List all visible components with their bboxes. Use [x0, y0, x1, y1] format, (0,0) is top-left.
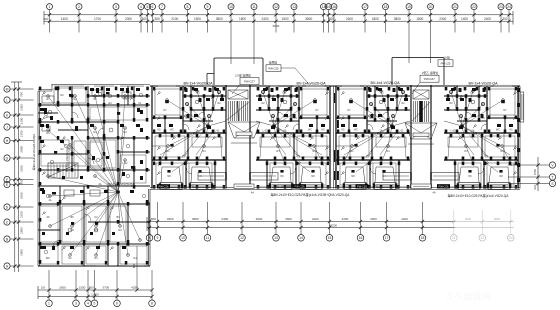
- svg-text:24: 24: [507, 5, 511, 9]
- svg-text:14: 14: [322, 5, 326, 9]
- apartment B-right bedroom1 inner face: [302, 89, 327, 115]
- apartment B-left room labels: [163, 109, 206, 187]
- svg-text:4A: 4A: [432, 190, 435, 194]
- bottom grid bubble axis-8: [146, 202, 153, 241]
- svg-text:T: T: [551, 175, 553, 179]
- bottom grid bubble axis-13: [273, 202, 280, 241]
- section divider pier bars: [334, 93, 339, 180]
- apartment B-left main cross walls: [152, 132, 226, 188]
- svg-text:8: 8: [151, 302, 153, 306]
- grid bubble axis-L: [4, 97, 34, 103]
- apartment C-right room labels: [464, 109, 507, 187]
- apartment C-left text row: [341, 92, 405, 133]
- bottom grid bubble axis-16: [357, 202, 364, 241]
- stair tower roof 1: [207, 58, 263, 85]
- left block window sills: [40, 85, 145, 265]
- apartment B-left bottom window sills: [152, 187, 226, 188]
- svg-text:500: 500: [44, 17, 49, 21]
- bottom grid bubble axis-8: [149, 270, 156, 307]
- apartment C-left top band walls: [336, 86, 410, 133]
- svg-text:2100: 2100: [171, 17, 178, 21]
- apartment B-right bottom bedroom inner faces: [270, 163, 326, 185]
- apartment C-left room labels: [347, 109, 390, 187]
- entry distribution box C-right: [437, 184, 450, 188]
- svg-text:1: 1: [48, 302, 50, 306]
- apartment B-left balcony rail: [152, 133, 166, 160]
- grid bubble axis-M: [4, 86, 34, 92]
- svg-text:BV-1x4-VG20-QA: BV-1x4-VG20-QA: [183, 81, 213, 85]
- svg-text:3800: 3800: [216, 17, 223, 21]
- svg-text:11: 11: [252, 5, 256, 9]
- svg-text:每BV-2x10+E10-G25-PA接(z1x4-VG20: 每BV-2x10+E10-G25-PA接(z1x4-VG20-QA: [448, 193, 510, 198]
- grid bubble axis-23: [498, 4, 504, 33]
- svg-text:3600: 3600: [167, 217, 174, 221]
- bay window B-left-b: [189, 183, 214, 190]
- grid bubble axis-9: [205, 4, 211, 33]
- svg-text:6: 6: [116, 302, 118, 306]
- apartment B-left switches: [157, 92, 215, 175]
- apartment C-left window sills: [342, 85, 360, 87]
- apartment C-left top band fixtures: [341, 88, 408, 129]
- svg-text:BV-1x4-VG20-QA: BV-1x4-VG20-QA: [65, 148, 69, 172]
- svg-text:PW-CZ7: PW-CZ7: [244, 80, 255, 84]
- grid bubble axis-17: [362, 4, 368, 33]
- apartment C-right bottom window sills: [444, 187, 518, 188]
- svg-text:3800: 3800: [192, 217, 199, 221]
- apartment B-left top band walls: [152, 86, 226, 133]
- apartment C-right top band fixtures: [446, 88, 513, 129]
- svg-text:1500: 1500: [281, 17, 288, 21]
- svg-text:接两处: 接两处: [269, 61, 278, 65]
- svg-text:10: 10: [181, 236, 185, 240]
- apartment C-left bottom window sills: [336, 187, 410, 188]
- apartment C-left lighting circuit: [350, 90, 410, 148]
- svg-text:1500: 1500: [194, 17, 201, 21]
- svg-text:1700: 1700: [94, 17, 101, 21]
- svg-text:9: 9: [207, 5, 209, 9]
- svg-text:20: 20: [429, 5, 433, 9]
- svg-text:1800: 1800: [372, 17, 379, 21]
- svg-text:1800: 1800: [416, 17, 423, 21]
- right grid dimension line: [533, 157, 538, 191]
- apartment C-right party wall: [517, 86, 518, 189]
- porch step stair1: [234, 184, 254, 194]
- left block extra fixtures: [42, 110, 146, 235]
- grid bubble axis-24: [506, 4, 512, 33]
- bay window C-right-a: [487, 183, 512, 190]
- svg-text:G: G: [6, 156, 9, 160]
- svg-text:WC: WC: [308, 129, 312, 132]
- grid bubble right axis-S: [508, 180, 556, 186]
- callout box PW-LZ5 top right: [438, 56, 453, 67]
- svg-text:15: 15: [328, 236, 332, 240]
- apartment B-right room labels: [276, 109, 319, 187]
- svg-text:17: 17: [363, 5, 367, 9]
- bottom grid bubble axis-14: [298, 202, 305, 241]
- bottom grid bubble axis-17: [383, 202, 390, 241]
- left block lighting circuit: [47, 95, 142, 257]
- svg-text:16: 16: [332, 5, 336, 9]
- grid bubble axis-E: [4, 181, 34, 187]
- apartment B-right main cross walls: [256, 132, 330, 188]
- apartment B-right bay diagonals: [271, 167, 321, 183]
- svg-text:2600: 2600: [59, 286, 66, 290]
- grid bubble axis-21: [452, 4, 458, 33]
- grid bubble axis-J: [4, 124, 34, 130]
- bay window C-left-b: [373, 183, 398, 190]
- svg-text:4A: 4A: [48, 199, 51, 202]
- callout box PW-CZ5 above stair1: [266, 61, 310, 86]
- apartment B-right lighting circuit: [256, 90, 316, 148]
- svg-text:WC: WC: [354, 129, 358, 132]
- left block room labels: [46, 94, 142, 260]
- apartment C-left main cross walls: [336, 132, 410, 188]
- svg-text:800: 800: [89, 286, 94, 290]
- svg-text:300: 300: [142, 17, 148, 21]
- grid bubble axis-C: [4, 219, 34, 225]
- svg-text:12: 12: [274, 5, 278, 9]
- apartment C-left top window sills: [364, 85, 396, 87]
- svg-text:300: 300: [502, 17, 508, 21]
- svg-text:750: 750: [19, 92, 23, 97]
- svg-text:5: 5: [94, 302, 96, 306]
- svg-text:13: 13: [292, 5, 296, 9]
- svg-text:BV-1x4-VG20-QA: BV-1x4-VG20-QA: [296, 81, 326, 85]
- svg-text:每BV-2x4+E10-G25-PA/QA: 每BV-2x4+E10-G25-PA/QA: [31, 134, 36, 170]
- left block outline: [38, 84, 150, 266]
- left block room inner faces: [40, 88, 147, 264]
- apartment B-left top band fixtures: [157, 88, 224, 129]
- porch floor band stair2 left: [383, 173, 411, 181]
- apartment B-left text row: [157, 92, 221, 133]
- svg-text:3: 3: [115, 5, 117, 9]
- svg-text:L-02: L-02: [263, 130, 268, 133]
- bottom grid bubble axis-4: [85, 270, 92, 307]
- bottom-middle dimension texts: [151, 217, 501, 227]
- svg-text:PW-CZ6: PW-CZ6: [439, 185, 449, 189]
- staircase S1: [225, 86, 250, 189]
- bottom grid bubble axis-10: [180, 202, 187, 241]
- svg-text:2A: 2A: [380, 130, 383, 133]
- svg-text:6: 6: [152, 5, 154, 9]
- left block small room fixtures: [40, 88, 143, 254]
- grid bubble axis-K: [4, 112, 34, 118]
- apartment C-left living room inner face: [339, 136, 406, 157]
- svg-text:2: 2: [78, 5, 80, 9]
- svg-text:L-02: L-02: [451, 130, 456, 133]
- svg-text:100: 100: [41, 286, 46, 290]
- grid bubble axis-5: [145, 4, 151, 33]
- bottom grid bubble axis-1: [46, 270, 53, 307]
- svg-text:4200: 4200: [342, 217, 349, 221]
- apartment B-left bottom bedroom inner faces: [156, 163, 212, 185]
- svg-text:WC: WC: [46, 116, 50, 119]
- grid bubble axis-11: [251, 4, 257, 64]
- apartment B-left doors: [182, 112, 204, 174]
- grid bubble axis-14: [321, 4, 327, 33]
- apartment B-right text row: [261, 92, 325, 133]
- svg-text:L-02: L-02: [215, 130, 220, 133]
- grid bubble axis-B: [4, 236, 34, 242]
- svg-text:5: 5: [147, 5, 149, 9]
- left block interior walls: [38, 86, 150, 266]
- left grid dimension lines: [11, 82, 22, 272]
- svg-text:久久建筑网: 久久建筑网: [445, 291, 490, 302]
- apartment C-right living room inner face: [448, 136, 515, 157]
- svg-text:2100: 2100: [19, 130, 23, 137]
- svg-text:PW-CZ5: PW-CZ5: [268, 67, 279, 71]
- svg-text:21: 21: [452, 236, 456, 240]
- svg-text:WC: WC: [170, 129, 174, 132]
- grid bubble axis-3: [113, 4, 119, 33]
- svg-text:18: 18: [384, 5, 388, 9]
- svg-text:4A: 4A: [251, 190, 254, 194]
- callout box PW-CZ7 near stair2: [412, 71, 439, 94]
- grid bubble axis-15: [326, 4, 332, 33]
- grid bubble axis-4: [138, 4, 144, 33]
- grid bubble axis-16: [331, 4, 337, 33]
- svg-text:2A: 2A: [98, 183, 101, 186]
- left block extra walls: [38, 86, 150, 231]
- apartment C-right living room wires: [448, 126, 512, 172]
- bottom-left dimension lines: [38, 286, 152, 299]
- entry porch E2: [405, 123, 437, 144]
- svg-text:2100: 2100: [19, 211, 23, 218]
- svg-text:15: 15: [327, 5, 331, 9]
- apartment C-right main cross walls: [444, 132, 518, 188]
- svg-text:4: 4: [87, 302, 89, 306]
- bottom-middle dimension lines: [147, 217, 514, 231]
- apartment C-right lighting circuit: [444, 90, 504, 148]
- apartment B-right top band walls: [256, 86, 330, 133]
- svg-text:3700: 3700: [102, 286, 109, 290]
- right edge side bay: [520, 92, 524, 122]
- svg-text:2400: 2400: [484, 17, 491, 21]
- grid bubble axis-G: [4, 155, 34, 161]
- apartment C-left balcony rail: [336, 133, 350, 160]
- svg-text:3300: 3300: [19, 165, 23, 172]
- svg-text:21: 21: [453, 5, 457, 9]
- apartment C-left switches: [341, 92, 399, 175]
- svg-text:24: 24: [509, 236, 513, 240]
- svg-text:14: 14: [299, 236, 303, 240]
- bottom grid bubble axis-18: [419, 202, 426, 241]
- apartment C-right bedroom1 inner face: [490, 89, 515, 115]
- apartment C-left party wall: [335, 86, 336, 189]
- apartment C-right text row: [449, 92, 513, 133]
- grid bubble axis-H: [4, 137, 34, 143]
- bottom grid bubble gray axis-24: [508, 210, 515, 241]
- grid bubble axis-8: [185, 4, 191, 33]
- apartment B-left bedroom1 inner face: [155, 89, 180, 115]
- svg-text:BV-1x4-VG20-QA: BV-1x4-VG20-QA: [468, 82, 498, 86]
- apartment B-right bottom window sills: [256, 187, 330, 188]
- apartment B-right doors: [278, 112, 300, 174]
- svg-text:17: 17: [385, 236, 389, 240]
- svg-text:22: 22: [472, 5, 476, 9]
- svg-text:2400: 2400: [439, 17, 446, 21]
- bottom grid bubble axis-6: [114, 270, 121, 307]
- svg-text:18: 18: [421, 236, 425, 240]
- svg-text:3: 3: [75, 302, 77, 306]
- left block middle inner faces: [41, 140, 146, 183]
- apartment C-right bottom bedroom inner faces: [458, 163, 514, 185]
- svg-text:11: 11: [206, 236, 210, 240]
- svg-text:M: M: [6, 87, 9, 91]
- left grid dimension texts: [19, 92, 23, 256]
- grid bubble axis-F: [4, 176, 34, 182]
- svg-text:1: 1: [49, 5, 51, 9]
- bottom grid bubble axis-12: [239, 202, 246, 241]
- svg-text:1500: 1500: [79, 286, 86, 290]
- left block wall piers: [39, 87, 149, 265]
- porch floor band stair2 right: [431, 173, 459, 181]
- svg-text:4200: 4200: [401, 217, 408, 221]
- porch floor band stair1 left: [198, 173, 226, 181]
- grid bubble axis-D: [4, 204, 34, 210]
- bay window B-right-a: [299, 183, 324, 190]
- bay window C-left-a: [343, 183, 368, 190]
- grid bubble axis-6: [150, 4, 156, 33]
- svg-text:1500: 1500: [533, 168, 537, 175]
- bottom grid bubble axis-11: [204, 202, 211, 241]
- entry distribution box B-left: [157, 184, 170, 188]
- bay window B-right-b: [269, 183, 294, 190]
- left block fixtures: [42, 90, 140, 249]
- svg-text:2850: 2850: [19, 146, 23, 153]
- stair tower roof 2: [392, 58, 444, 86]
- bottom grid bubble axis-5: [91, 270, 98, 307]
- svg-text:1400: 1400: [61, 17, 68, 21]
- svg-text:23: 23: [499, 5, 503, 9]
- left block doors: [53, 112, 104, 247]
- apartment B-left living room wires: [158, 126, 222, 172]
- svg-text:2400: 2400: [346, 17, 353, 21]
- svg-text:3000: 3000: [256, 217, 263, 221]
- svg-text:J: J: [6, 125, 8, 129]
- apartment B-right top band fixtures: [258, 88, 325, 129]
- svg-text:2300: 2300: [19, 104, 23, 111]
- grid bubble axis-20: [428, 4, 434, 63]
- svg-text:BV-1x4-VG20-QA: BV-1x4-VG20-QA: [370, 81, 400, 85]
- apartment B-right living room wires: [260, 126, 324, 172]
- svg-text:L: L: [6, 98, 8, 102]
- svg-text:3800: 3800: [305, 17, 312, 21]
- apartment B-left top window sills: [180, 85, 212, 87]
- bottom grid bubble axis-9: [154, 202, 161, 241]
- apartment B-right wall piers: [257, 87, 330, 189]
- grid bubble axis-22: [471, 4, 477, 33]
- grid bubble axis-1: [47, 4, 53, 33]
- svg-text:L-02: L-02: [122, 162, 128, 165]
- svg-text:16: 16: [359, 236, 363, 240]
- apartment B-right party wall: [329, 86, 330, 189]
- svg-text:2800: 2800: [19, 227, 23, 234]
- svg-text:800: 800: [151, 217, 156, 221]
- svg-text:2100: 2100: [19, 117, 23, 124]
- building outline - long block: [150, 85, 520, 189]
- grid bubble axis-19: [406, 4, 412, 63]
- grid bubble axis-18: [383, 4, 389, 33]
- apartment B-left bay diagonals: [161, 167, 211, 183]
- svg-text:2000: 2000: [125, 17, 132, 21]
- entry distribution box B-right: [293, 184, 306, 188]
- grid bubble right axis-V: [508, 162, 556, 168]
- svg-text:4: 4: [140, 5, 142, 9]
- svg-text:2A: 2A: [196, 130, 199, 133]
- svg-text:22: 22: [480, 236, 484, 240]
- grid bubble axis-10: [228, 4, 234, 64]
- apartment B-left party wall: [151, 86, 152, 189]
- bottom-left dimension texts: [41, 286, 138, 297]
- bay window B-left-a: [159, 183, 184, 190]
- apartment B-left lighting circuit: [166, 90, 226, 148]
- left block corner dim: [132, 246, 139, 292]
- bottom grid bubble gray axis-22: [479, 210, 486, 241]
- apartment B-right window sills: [306, 85, 324, 87]
- grid bubble axis-2: [76, 4, 82, 33]
- svg-text:500: 500: [155, 17, 161, 21]
- left block switches: [42, 92, 133, 250]
- svg-text:19: 19: [407, 5, 411, 9]
- apartment C-right window sills: [494, 85, 512, 87]
- apartment B-right living room inner face: [260, 136, 327, 157]
- svg-text:BV-1x4-VG20-QA: BV-1x4-VG20-QA: [275, 185, 302, 189]
- grid bubble axis-A: [4, 263, 34, 269]
- entry porch E1: [228, 122, 260, 143]
- apartment C-left bay diagonals: [345, 167, 395, 183]
- top grid dimension texts: [44, 17, 508, 28]
- apartment B-right top window sills: [270, 85, 302, 87]
- svg-text:WC: WC: [46, 257, 50, 260]
- section divider wall: [334, 86, 336, 189]
- svg-text:2安乙 接两处: 2安乙 接两处: [422, 71, 439, 75]
- svg-text:WC: WC: [496, 129, 500, 132]
- apartment C-right switches: [458, 92, 516, 175]
- apartment C-left bedroom1 inner face: [339, 89, 364, 115]
- svg-text:L-02: L-02: [399, 130, 404, 133]
- svg-text:2400: 2400: [221, 217, 228, 221]
- svg-text:8: 8: [187, 5, 189, 9]
- grid bubble axis-12: [273, 4, 279, 33]
- apartment C-right doors: [466, 112, 488, 174]
- svg-text:3800: 3800: [394, 17, 401, 21]
- apartment B-right switches: [270, 92, 328, 175]
- top grid dimension lines: [44, 11, 513, 25]
- svg-text:1800: 1800: [239, 17, 246, 21]
- entry distribution box C-left: [356, 184, 369, 188]
- porch step stair2: [411, 184, 436, 194]
- svg-text:7: 7: [161, 5, 163, 9]
- svg-text:3600: 3600: [370, 217, 377, 221]
- apartment C-right balcony rail: [504, 133, 518, 160]
- svg-text:PW-CZ6: PW-CZ6: [159, 185, 169, 189]
- porch floor band stair1 right: [250, 173, 278, 181]
- svg-text:10: 10: [229, 5, 233, 9]
- grid bubble axis-13: [291, 4, 297, 33]
- left block staircase: [48, 163, 78, 178]
- svg-text:每BV-2x10+E10-G25-PA接(z1x4-VG2B: 每BV-2x10+E10-G25-PA接(z1x4-VG2B+QN4-VG20-…: [271, 192, 351, 197]
- svg-text:2400: 2400: [261, 17, 268, 21]
- svg-text:2.5安 接两处: 2.5安 接两处: [235, 73, 251, 77]
- apartment B-left wall piers: [153, 87, 226, 189]
- svg-text:PW-CZ7: PW-CZ7: [424, 77, 435, 81]
- svg-text:9: 9: [157, 236, 159, 240]
- svg-text:PW-CZ6: PW-CZ6: [357, 185, 367, 189]
- apartment B-left living room inner face: [155, 136, 222, 157]
- svg-text:1400: 1400: [461, 17, 468, 21]
- svg-text:3000: 3000: [19, 249, 23, 256]
